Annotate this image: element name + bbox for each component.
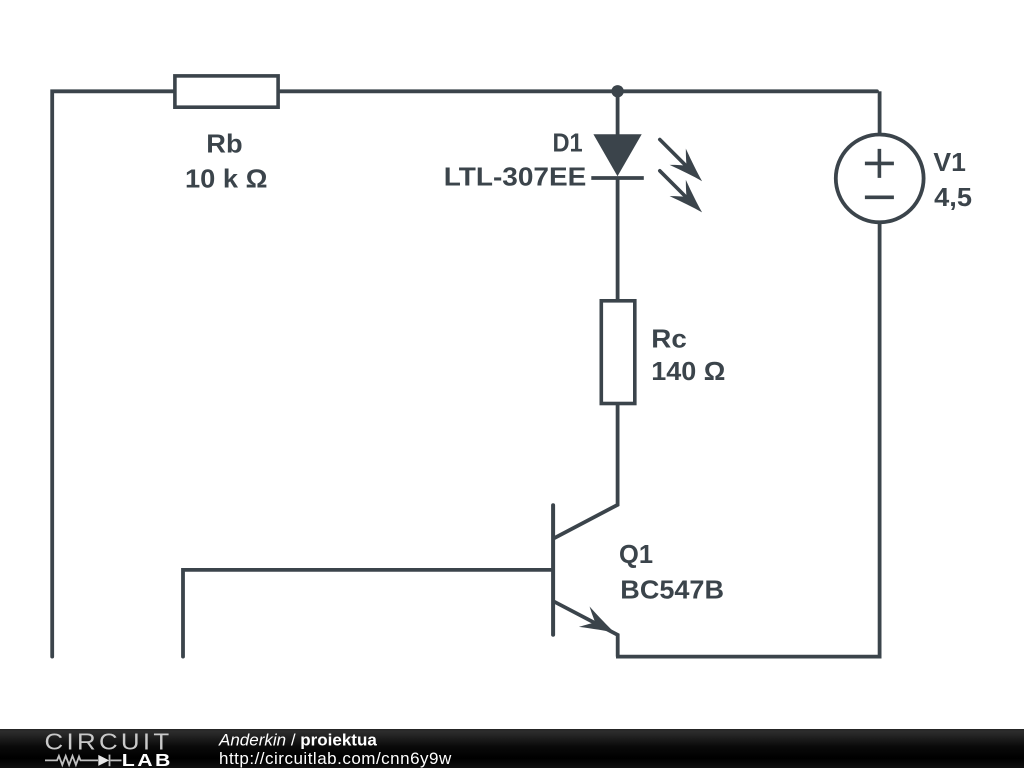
node junction dot (611, 85, 623, 97)
V1 plus sign (865, 149, 894, 178)
svg-text:10 k Ω: 10 k Ω (185, 164, 268, 194)
transistor Q1 emitter arrowhead (579, 607, 620, 643)
footer bar (0, 729, 1024, 768)
wire V1 top lead (878, 91, 882, 140)
wire LED anode lead (616, 91, 620, 140)
transistor Q1 base bar (551, 505, 555, 635)
V1 minus sign (865, 196, 894, 200)
svg-text:4,5: 4,5 (934, 182, 972, 212)
logo squiggle resistor-diode (45, 755, 122, 767)
LED D1 triangle (593, 134, 641, 176)
resistor Rc (601, 301, 635, 404)
svg-text:Anderkin / proiektua: Anderkin / proiektua (218, 730, 377, 749)
wire top rail (52, 91, 877, 656)
wire LED cathode to Rc (616, 178, 620, 302)
wire V1 bottom lead to bottom rail (616, 218, 880, 657)
svg-text:Rc: Rc (651, 324, 687, 354)
LED light arrow 1 (660, 140, 710, 190)
svg-text:BC547B: BC547B (620, 575, 724, 605)
LED D1 cathode bar (591, 176, 644, 180)
svg-text:Rb: Rb (206, 129, 242, 159)
logo diode triangle (98, 755, 109, 766)
voltage source V1 (836, 135, 924, 223)
wire emitter to bottom rail (554, 602, 618, 657)
wire base L-shaped (183, 570, 553, 657)
svg-text:LTL-307EE: LTL-307EE (444, 162, 587, 192)
svg-text:D1: D1 (553, 128, 583, 158)
svg-text:LAB: LAB (122, 750, 173, 768)
svg-text:Q1: Q1 (619, 539, 653, 569)
svg-text:V1: V1 (933, 147, 966, 177)
svg-text:http://circuitlab.com/cnn6y9w: http://circuitlab.com/cnn6y9w (219, 749, 452, 768)
svg-text:140 Ω: 140 Ω (651, 356, 725, 386)
LED light arrow 2 (660, 171, 710, 221)
resistor Rb (175, 76, 278, 107)
wire Rc to collector elbow (554, 402, 618, 538)
